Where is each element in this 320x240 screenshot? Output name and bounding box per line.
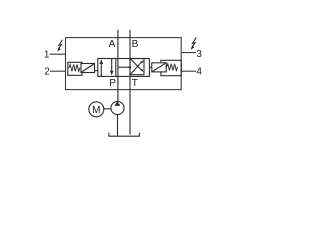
wire terminal 2 xyxy=(50,70,66,72)
enclosure box xyxy=(66,38,182,90)
pump triangle xyxy=(114,102,120,106)
svg-text:A: A xyxy=(109,39,116,50)
wire terminal 1 xyxy=(50,53,66,55)
line B xyxy=(129,30,131,67)
crossed path 1 xyxy=(130,61,142,74)
solenoid box left xyxy=(81,64,95,73)
crossed arrowhead upper xyxy=(141,60,144,63)
arrow down line xyxy=(111,59,113,74)
arrow down head xyxy=(110,71,114,76)
wire terminal 4 xyxy=(181,70,196,72)
svg-text:4: 4 xyxy=(196,67,202,78)
valve divider xyxy=(115,59,117,77)
spring left xyxy=(69,65,80,72)
svg-text:3: 3 xyxy=(196,49,202,60)
solenoid diagonal right xyxy=(152,63,166,72)
pump suction wire xyxy=(117,115,119,136)
electrical actuation bolt left xyxy=(59,40,63,49)
line P xyxy=(117,67,119,101)
svg-text:B: B xyxy=(132,39,139,50)
shaft wire xyxy=(104,108,111,110)
wire terminal 3 xyxy=(181,52,196,54)
pump circle P1 xyxy=(111,101,124,114)
solenoid box right xyxy=(152,63,166,72)
line A xyxy=(117,30,119,67)
wire solenoid to valve left xyxy=(95,70,98,72)
junction dot xyxy=(129,66,131,68)
spring box left xyxy=(68,62,82,75)
crossed-path box xyxy=(130,59,144,75)
svg-text:T: T xyxy=(132,78,138,89)
solenoid diagonal left xyxy=(81,64,95,73)
motor circle M1 xyxy=(89,102,104,117)
valve body xyxy=(98,59,150,77)
svg-text:2: 2 xyxy=(44,67,50,78)
svg-text:M: M xyxy=(92,105,100,116)
arrow up head xyxy=(100,59,104,64)
line T xyxy=(129,67,131,134)
tank xyxy=(109,133,139,137)
svg-text:P: P xyxy=(109,78,116,89)
arrow up line xyxy=(100,61,102,77)
wire A-B connector xyxy=(118,66,130,68)
crossed arrowhead lower xyxy=(141,69,144,72)
spring right xyxy=(166,64,177,71)
spring box right xyxy=(161,60,181,75)
crossed path 2 xyxy=(130,59,142,71)
svg-text:1: 1 xyxy=(44,50,50,61)
electrical actuation bolt right xyxy=(192,38,196,47)
wire valve to solenoid right xyxy=(149,66,151,68)
